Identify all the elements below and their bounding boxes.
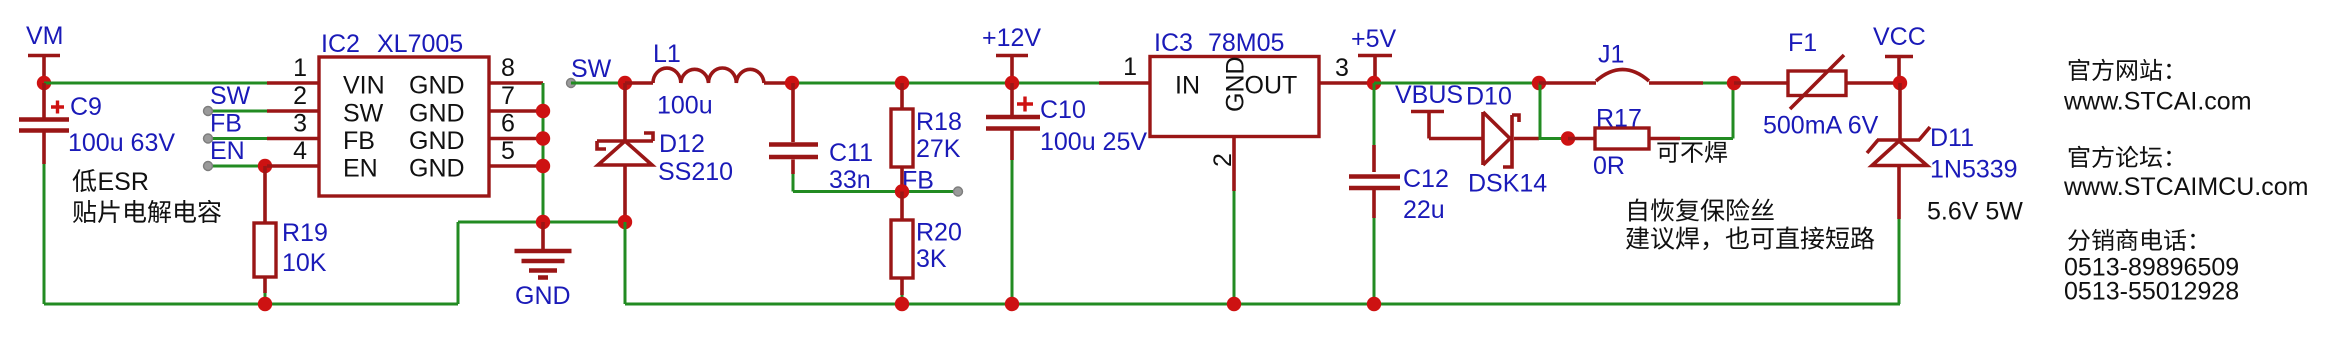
svg-text:IC2: IC2 (321, 30, 360, 58)
IC2 pin 2 (267, 82, 319, 111)
annotation website header (2069, 59, 2171, 81)
IC3 pin 1 (1099, 53, 1150, 83)
wire GND left drop (457, 222, 460, 304)
svg-text:IC3: IC3 (1154, 29, 1193, 57)
svg-text:VBUS: VBUS (1395, 81, 1463, 109)
svg-text:L1: L1 (653, 40, 681, 68)
ground symbol (515, 222, 572, 278)
svg-text:R19: R19 (282, 219, 328, 247)
node pin6 junction (536, 131, 550, 145)
node C10 bottom junction (1005, 297, 1019, 311)
svg-text:2: 2 (293, 82, 307, 110)
svg-text:SS210: SS210 (658, 158, 733, 186)
op-amp IC2 box (319, 57, 489, 196)
annotation low ESR (73, 168, 149, 196)
IC2 pin 6 (489, 110, 543, 139)
annotation resettable fuse (1629, 198, 1774, 221)
svg-text:4: 4 (293, 137, 307, 165)
svg-text:C11: C11 (829, 139, 873, 167)
svg-text:5.6V 5W: 5.6V 5W (1927, 198, 2023, 226)
svg-text:7: 7 (501, 82, 515, 110)
svg-text:FB: FB (343, 127, 375, 155)
svg-text:J1: J1 (1598, 41, 1624, 69)
wire GND horizontal (458, 221, 625, 224)
svg-text:www.STCAI.com: www.STCAI.com (2063, 88, 2252, 116)
svg-text:R18: R18 (916, 108, 962, 136)
svg-text:2: 2 (1209, 153, 1237, 167)
capacitor C10 (986, 83, 1040, 304)
node +12V junction (1005, 76, 1019, 90)
svg-text:GND: GND (409, 127, 465, 155)
svg-text:OUT: OUT (1245, 72, 1298, 100)
svg-text:XL7005: XL7005 (377, 30, 463, 58)
node J1 left junction (1532, 76, 1546, 90)
svg-text:SW: SW (343, 100, 384, 128)
wire EN stub (208, 165, 265, 168)
node FB wire end (954, 187, 963, 196)
node GND symbol junction (536, 215, 550, 229)
svg-text:IN: IN (1175, 72, 1200, 100)
regulator IC3 box (1150, 57, 1319, 137)
svg-text:C12: C12 (1403, 165, 1449, 193)
IC2 pin 5 (489, 137, 543, 166)
power port +5V (1358, 56, 1392, 84)
annotation SMD electrolytic (73, 200, 221, 223)
svg-text:DSK14: DSK14 (1468, 170, 1547, 198)
wire J1 to F1 junction (1703, 82, 1734, 85)
resistor R17 (1568, 83, 1733, 149)
annotation distributor header (2068, 229, 2195, 251)
svg-text:F1: F1 (1788, 29, 1817, 57)
svg-text:C10: C10 (1040, 96, 1086, 124)
wire FB net (793, 190, 958, 193)
wire FB stub (208, 137, 267, 140)
node SW wire end (567, 79, 576, 88)
inductor L1 (625, 68, 792, 83)
power port +12V (996, 56, 1028, 84)
node R18 top junction (895, 76, 909, 90)
svg-text:100u 63V: 100u 63V (68, 129, 175, 157)
diode D11 zener (1867, 83, 1930, 304)
wire SW to L1 (571, 82, 625, 85)
node IC3 GND bottom junction (1227, 297, 1241, 311)
resistor R20 (891, 192, 913, 305)
wire C9 to bottom rail (43, 164, 46, 304)
node FB junction (895, 184, 909, 198)
wire D12 drop to rail (624, 222, 627, 304)
svg-text:1N5339: 1N5339 (1930, 156, 2018, 184)
svg-text:3: 3 (1335, 54, 1349, 82)
svg-text:GND: GND (515, 282, 571, 310)
svg-text:33n: 33n (829, 166, 871, 194)
IC2 pin 1 (267, 54, 319, 83)
svg-text:500mA 6V: 500mA 6V (1763, 112, 1879, 140)
svg-text:10K: 10K (282, 249, 327, 277)
resistor R19 (254, 166, 276, 304)
svg-text:EN: EN (210, 137, 245, 165)
node pin7 junction (536, 104, 550, 118)
annotation may skip soldering (1657, 141, 1727, 163)
IC3 pin 2 (1209, 137, 1237, 305)
svg-text:FB: FB (210, 110, 242, 138)
node +5V junction (1367, 76, 1381, 90)
IC2 pin 7 (489, 82, 543, 111)
svg-text:D11: D11 (1930, 124, 1974, 152)
svg-text:GND: GND (409, 155, 465, 183)
node R19 bottom junction (258, 297, 272, 311)
wire bottom rail right (625, 303, 1900, 306)
fuse F1 (1734, 55, 1900, 109)
jumper J1 (1539, 70, 1703, 84)
node R20 bottom junction (895, 297, 909, 311)
svg-text:8: 8 (501, 54, 515, 82)
capacitor C12 (1349, 83, 1400, 304)
node SW stub end (204, 107, 213, 116)
IC2 pin 4 (267, 137, 319, 166)
node VM junction (37, 76, 51, 90)
node C12 bottom junction (1367, 297, 1381, 311)
node D12 anode junction (618, 215, 632, 229)
svg-text:78M05: 78M05 (1208, 29, 1284, 57)
IC3 pin 3 (1319, 54, 1374, 83)
annotation solder or short (1626, 226, 1874, 250)
svg-text:+12V: +12V (982, 24, 1041, 52)
svg-text:SW: SW (210, 82, 251, 110)
power port VBUS (1411, 112, 1444, 139)
svg-text:VIN: VIN (343, 72, 385, 100)
svg-text:100u: 100u (657, 92, 713, 120)
svg-text:6: 6 (501, 110, 515, 138)
svg-text:100u 25V: 100u 25V (1040, 128, 1147, 156)
svg-text:GND: GND (409, 100, 465, 128)
svg-text:D10: D10 (1466, 83, 1512, 111)
svg-text:0R: 0R (1593, 152, 1625, 180)
svg-text:+5V: +5V (1351, 25, 1397, 53)
svg-text:5: 5 (501, 137, 515, 165)
node L1 left junction (618, 76, 632, 90)
svg-text:1: 1 (293, 54, 307, 82)
annotation forum header (2069, 146, 2171, 168)
svg-text:VM: VM (26, 22, 64, 50)
svg-text:27K: 27K (916, 135, 961, 163)
wire L1 to IC3 pin1 (792, 82, 1099, 85)
node FB stub end (204, 134, 213, 143)
wire bottom rail left (44, 303, 458, 306)
diode D10 schottky (1429, 112, 1539, 167)
svg-text:SW: SW (571, 55, 612, 83)
node L1 right junction (785, 76, 799, 90)
IC2 pin 3 (267, 110, 319, 139)
resistor R18 (891, 83, 913, 192)
wire SW stub (208, 110, 267, 113)
node EN junction (258, 159, 272, 173)
diode D12 schottky (597, 83, 653, 222)
capacitor C11 (769, 83, 818, 192)
capacitor C9 (19, 83, 69, 164)
wire VM to IC2 pin1 (44, 82, 267, 85)
node R17 left junction (1561, 131, 1575, 145)
node F1 left junction (1727, 76, 1741, 90)
power port VCC (1885, 57, 1913, 84)
IC2 pin 8 (489, 54, 543, 83)
svg-text:C9: C9 (70, 93, 102, 121)
node VCC junction (1893, 76, 1907, 90)
svg-text:3K: 3K (916, 245, 947, 273)
svg-text:EN: EN (343, 155, 378, 183)
power port VM (28, 56, 60, 84)
svg-text:3: 3 (293, 110, 307, 138)
wire +5V to J1 branch (1374, 82, 1539, 85)
node EN stub end (204, 162, 213, 171)
svg-text:D12: D12 (659, 130, 705, 158)
svg-text:ESR: ESR (98, 168, 149, 196)
wire IC2 GND pins vertical (542, 83, 545, 222)
svg-text:22u: 22u (1403, 196, 1445, 224)
node pin5 junction (536, 159, 550, 173)
wire branch down to R17 row (1540, 83, 1561, 139)
svg-text:VCC: VCC (1873, 23, 1926, 51)
svg-text:R20: R20 (916, 219, 962, 247)
svg-text:www.STCAIMCU.com: www.STCAIMCU.com (2063, 173, 2308, 201)
svg-text:GND: GND (409, 72, 465, 100)
svg-text:1: 1 (1123, 53, 1137, 81)
svg-text:R17: R17 (1596, 105, 1642, 133)
svg-text:0513-55012928: 0513-55012928 (2064, 278, 2239, 306)
